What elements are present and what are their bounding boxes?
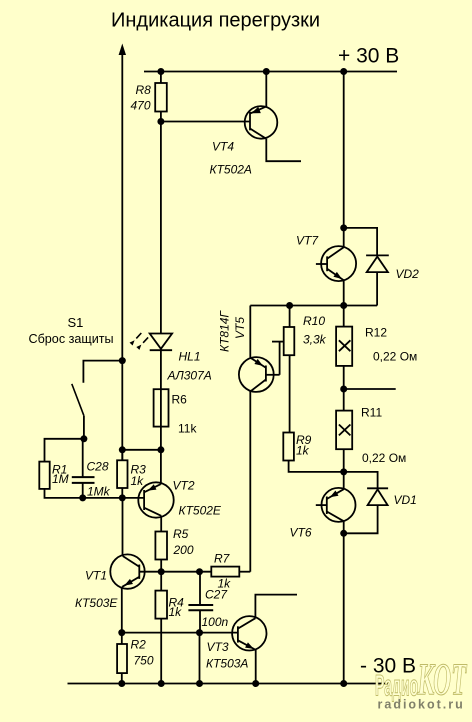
junction on +30V rail at R8 <box>157 68 164 75</box>
resistor R4 <box>155 572 167 684</box>
svg-text:+ 30 В: + 30 В <box>338 45 399 68</box>
wire LED cathode down through R6 to lower junction <box>160 349 162 450</box>
svg-text:VT2: VT2 <box>173 479 195 493</box>
svg-text:R7: R7 <box>214 552 231 566</box>
junction S1 bottom / R1 / C28 <box>80 435 87 442</box>
resistor R10 <box>284 306 295 433</box>
svg-text:1k: 1k <box>131 474 145 488</box>
junction on left column at cross-link <box>119 446 126 453</box>
junction R5 bottom / R4 top <box>158 568 165 575</box>
svg-text:R11: R11 <box>361 406 382 420</box>
VT5 emitter arrow (PNP) <box>254 359 264 369</box>
svg-text:КТ503Е: КТ503Е <box>75 596 118 610</box>
capacitor C27 <box>188 572 213 684</box>
junction -30V rail at R2 <box>118 680 125 687</box>
svg-text:VD2: VD2 <box>396 267 420 281</box>
resistor R5 <box>155 532 167 572</box>
junction R2 top / VT1 emitter <box>118 629 125 636</box>
svg-text:АЛ307А: АЛ307А <box>167 369 212 383</box>
svg-text:Индикация перегрузки: Индикация перегрузки <box>111 10 320 32</box>
VT3 emitter arrow (NPN) <box>245 642 255 651</box>
wire +30V rail down to VT7 collector <box>343 72 345 247</box>
svg-text:200: 200 <box>173 543 194 557</box>
resistor R3 <box>117 450 127 498</box>
diode VD2 <box>344 228 389 306</box>
junction at R10 top <box>286 302 293 309</box>
svg-text:VT3: VT3 <box>207 640 229 654</box>
transistor VT5 <box>239 306 284 392</box>
svg-text:R6: R6 <box>172 393 188 407</box>
junction S1 tap on left column <box>119 357 126 364</box>
svg-text:VT6: VT6 <box>290 526 312 540</box>
wire cross-link R3 column to R6 bottom <box>122 449 161 451</box>
svg-text:R10: R10 <box>303 314 325 328</box>
junction -30V rail at C27 <box>196 680 203 687</box>
resistor R1 <box>39 439 144 498</box>
svg-text:HL1: HL1 <box>179 350 201 364</box>
wire vertical from arrow down to S1 junction <box>121 54 123 460</box>
wire VT5 emitter row to VT7 emitter junction <box>250 305 343 307</box>
svg-text:C28: C28 <box>87 460 109 474</box>
junction C28 bottom <box>79 494 86 501</box>
svg-text:3,3k: 3,3k <box>303 333 327 347</box>
VT4 emitter arrow (PNP) <box>250 107 261 117</box>
junction R11 bottom / R9 wire / VD1 / VT6 <box>340 468 347 475</box>
svg-text:1k: 1k <box>169 605 183 619</box>
LED HL1 <box>150 334 172 351</box>
svg-text:0,22 Ом: 0,22 Ом <box>373 350 417 364</box>
junction -30V rail at R4 <box>158 680 165 687</box>
HL1 light arrow 2 <box>136 337 148 349</box>
transistor VT2 <box>138 450 173 532</box>
svg-text:C27: C27 <box>205 588 228 602</box>
resistor R2 <box>117 633 127 684</box>
junction VT6 emitter / VD1 bottom <box>340 530 347 537</box>
wire bottom row to VT3 base <box>122 632 238 634</box>
svg-text:R5: R5 <box>173 527 189 541</box>
junction C27 bottom tap <box>196 629 203 636</box>
junction between R12 and R11 with output stub <box>340 386 347 393</box>
junction at VD2 top tap <box>340 224 347 231</box>
node arrow to protected circuit <box>119 44 126 56</box>
svg-text:VT1: VT1 <box>85 569 107 583</box>
svg-text:КТ502Е: КТ502Е <box>179 504 222 518</box>
svg-text:S1: S1 <box>68 315 84 330</box>
svg-text:Сброс защиты: Сброс защиты <box>29 332 114 346</box>
VT6 emitter arrow (PNP) <box>328 491 338 500</box>
junction on +30V rail at VT7 column <box>340 68 347 75</box>
resistor R7 <box>211 567 250 577</box>
junction VT7 emitter / VD2 bottom / R12 top <box>340 302 347 309</box>
capacitor C28 <box>72 439 95 498</box>
wire -30V rail <box>68 683 389 685</box>
wire VT5 collector down to R7 right lead <box>249 391 251 571</box>
switch S1 <box>72 361 123 439</box>
svg-text:VD1: VD1 <box>394 493 417 507</box>
junction on +30V rail at VT4 emitter <box>263 68 270 75</box>
wire R8 bottom to VT4 base <box>161 121 250 123</box>
junction R3 bottom / VT1 collector riser <box>119 494 126 501</box>
svg-text:R8: R8 <box>136 83 152 97</box>
svg-text:100n: 100n <box>202 615 229 629</box>
wire R8 bottom down to LED HL1 <box>160 122 162 334</box>
svg-text:КТ503А: КТ503А <box>206 657 248 671</box>
transistor VT4 <box>245 72 301 162</box>
VT1 emitter arrow (NPN) <box>123 579 133 588</box>
svg-text:0,22 Ом: 0,22 Ом <box>362 451 406 465</box>
svg-text:1k: 1k <box>296 444 310 458</box>
transistor VT7 <box>316 246 356 305</box>
svg-text:1M: 1M <box>52 472 69 486</box>
svg-text:radiokot.ru: radiokot.ru <box>378 698 465 712</box>
VT2 emitter arrow (PNP) <box>146 484 156 493</box>
svg-text:VT7: VT7 <box>296 234 319 248</box>
svg-text:КТ502А: КТ502А <box>210 163 252 177</box>
junction below R8 <box>157 118 164 125</box>
resistor R8 <box>155 72 167 122</box>
junction R6 bottom <box>157 446 164 453</box>
junction C27 top <box>196 568 203 575</box>
wire junction row VT1 base / R5 / C27 / R7 <box>139 571 211 573</box>
transistor VT3 <box>232 595 297 684</box>
resistor R9 <box>283 433 343 472</box>
resistor R6 (lead drawn through body) <box>154 389 169 426</box>
diode VD1 <box>344 472 388 533</box>
wire output stub right of R12/R11 junction <box>344 388 396 390</box>
svg-text:КТ814Г: КТ814Г <box>218 310 232 352</box>
junction -30V rail at VT3 emitter <box>252 680 259 687</box>
transistor VT1 <box>110 498 144 633</box>
shunt resistor R11 <box>336 411 352 472</box>
svg-text:R2: R2 <box>131 638 147 652</box>
svg-text:R12: R12 <box>365 326 387 340</box>
svg-text:VT4: VT4 <box>212 140 234 154</box>
junction -30V rail at VT6 column <box>340 680 347 687</box>
svg-text:750: 750 <box>134 654 154 668</box>
wire VT6 emitter down to -30V rail <box>343 533 345 683</box>
HL1 light arrow 1 <box>130 333 142 345</box>
svg-text:11k: 11k <box>178 422 197 436</box>
svg-text:1Mk: 1Mk <box>87 485 111 499</box>
svg-text:VT5: VT5 <box>233 317 247 339</box>
shunt resistor R12 <box>336 306 352 411</box>
VT7 emitter arrow (NPN) <box>333 272 343 282</box>
svg-text:470: 470 <box>131 99 151 113</box>
transistor VT6 <box>316 472 356 533</box>
wire +30V rail <box>144 71 397 73</box>
